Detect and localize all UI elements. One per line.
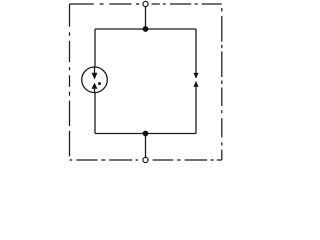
- arrow (source, downward): [92, 73, 98, 80]
- current source (left branch, circle symbol): [82, 67, 108, 93]
- arrow (right branch, downward): [193, 73, 198, 79]
- wire (inside source, lower stub): [94, 89, 96, 93]
- node (top junction): [143, 26, 149, 32]
- arrow (source, upward): [92, 83, 98, 89]
- wire (inside source, upper stub): [94, 67, 96, 73]
- node (bottom junction): [143, 131, 149, 137]
- terminal (bottom, open circle): [143, 157, 148, 162]
- terminal (top, open circle): [143, 1, 148, 6]
- polarity dot (inside source): [98, 82, 101, 85]
- enclosure boundary (dash-dot box): [70, 4, 222, 160]
- wire (inner loop: top, bottom, left branch, right branch segments): [95, 29, 196, 134]
- wire (top terminal lead): [145, 7, 147, 30]
- wire (bottom terminal lead): [145, 134, 147, 158]
- arrow (right branch, upward): [193, 81, 198, 87]
